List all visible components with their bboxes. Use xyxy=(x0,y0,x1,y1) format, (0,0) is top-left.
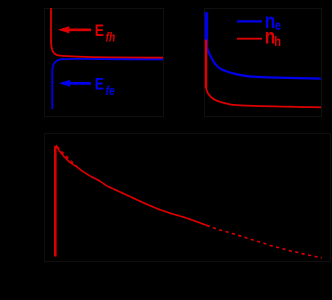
svg-text:h: h xyxy=(274,34,281,49)
svg-text:E: E xyxy=(95,75,104,94)
svg-text:fe: fe xyxy=(106,85,116,98)
svg-text:e: e xyxy=(275,18,281,33)
svg-text:fh: fh xyxy=(106,31,116,44)
svg-text:E: E xyxy=(95,22,104,41)
